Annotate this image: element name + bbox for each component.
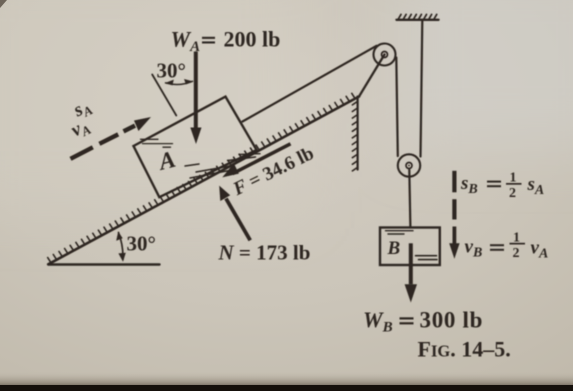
incline right vertical edge	[357, 97, 359, 170]
vB dash	[452, 199, 456, 219]
30deg arc top	[166, 81, 193, 84]
pulley bracket	[359, 55, 385, 97]
block A	[134, 97, 257, 198]
vB arrow	[453, 227, 457, 246]
hatching on hypotenuse	[48, 93, 355, 262]
WA force arrow	[194, 52, 198, 130]
page bottom shadow	[0, 371, 573, 391]
svg-text:2: 2	[509, 186, 516, 201]
block B shade marks	[386, 231, 414, 234]
incline hypotenuse	[48, 97, 359, 265]
movable pulley	[398, 154, 420, 176]
F arrow	[233, 144, 291, 174]
block B	[380, 228, 440, 266]
N arrow	[226, 199, 250, 241]
svg-text:30°: 30°	[127, 232, 156, 256]
normal reference line for 30deg	[152, 75, 176, 116]
hanger movable pulley to block B	[409, 170, 410, 228]
block A shade marks upper-left	[141, 139, 173, 147]
arc arrowheads top 30deg	[165, 80, 174, 86]
30deg base angle double arrow	[119, 233, 123, 260]
ceiling hatching	[398, 14, 437, 19]
block A shade marks lower-middle	[185, 154, 260, 178]
svg-text:N = 173 lb: N = 173 lb	[218, 241, 311, 265]
svg-text:300 lb: 300 lb	[420, 308, 484, 333]
base 30deg arrowheads	[116, 232, 123, 241]
ceiling line	[397, 19, 439, 21]
sB bar marker	[452, 171, 456, 193]
rope right vertical to ceiling	[421, 21, 423, 157]
sA vA dashed arrow	[71, 126, 136, 159]
svg-text:B: B	[387, 238, 401, 259]
svg-text:200 lb: 200 lb	[224, 27, 281, 52]
hatching on incline right edge	[352, 101, 357, 171]
svg-text:30°: 30°	[157, 59, 186, 83]
rope left vertical between pulleys	[396, 58, 398, 157]
svg-text:2: 2	[513, 246, 520, 261]
incline base line	[48, 263, 159, 265]
rope block A to top pulley	[243, 46, 377, 122]
corner speck	[0, 0, 7, 8]
WB arrow	[409, 243, 413, 284]
top pulley	[374, 44, 396, 66]
